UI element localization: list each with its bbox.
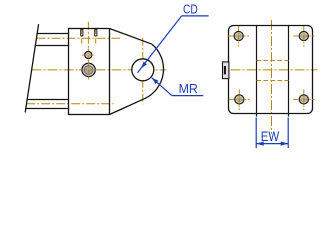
hatched circle crosshair (79, 61, 98, 80)
main block (69, 29, 110, 115)
leader MR arrowhead (152, 78, 159, 84)
extension line right (287, 118, 289, 149)
hatched circle inner ring 2 (87, 68, 91, 72)
hole BR (293, 89, 314, 110)
hatched circle (grommet) (82, 63, 95, 76)
extension line left (255, 118, 257, 149)
top hole slot left (81, 29, 83, 36)
svg-text:CD: CD (183, 2, 198, 17)
pointed nose: top slant, tip arc, bottom slant (110, 29, 164, 115)
wedge (left arm) outline (25, 25, 68, 112)
centerline vertical main (through small circles) (87, 22, 89, 80)
small circle (gray filled) (85, 51, 92, 58)
hole BL (229, 89, 250, 110)
centerline vertical big circle (142, 38, 144, 105)
dimension line (256, 143, 288, 145)
arrowhead left (256, 142, 264, 146)
centerline vertical top hole left (81, 29, 83, 45)
tab inner bar (224, 66, 226, 74)
centerline horizontal main axis (32, 69, 167, 71)
centerline horizontal lower (26, 103, 113, 105)
svg-text:EW: EW (261, 128, 280, 144)
leader CD diagonal (138, 16, 182, 73)
centerline vertical right view (271, 20, 273, 134)
inner horizontal upper (orange) (257, 60, 289, 62)
hole TR (293, 26, 314, 47)
centerline horizontal right view (231, 69, 318, 71)
arrowhead right (281, 142, 289, 146)
tab on left edge (223, 62, 229, 79)
leader MR diagonal (152, 78, 172, 96)
hatched circle inner ring (84, 66, 92, 74)
leader MR underline (172, 95, 203, 97)
top hole slot right (95, 29, 97, 36)
small circle crosshair (82, 48, 95, 61)
svg-text:MR: MR (179, 81, 198, 96)
plate outline (229, 26, 313, 114)
leader CD underline (182, 15, 209, 17)
centerline vertical top hole right (95, 29, 97, 45)
inner vertical right (288, 26, 290, 117)
inner horizontal lower (orange) (257, 80, 289, 82)
big circle (132, 59, 154, 81)
hole TL (228, 26, 249, 47)
leader CD arrowhead (141, 62, 147, 69)
centerline horizontal top holes (37, 37, 121, 39)
inner vertical left (256, 26, 258, 117)
